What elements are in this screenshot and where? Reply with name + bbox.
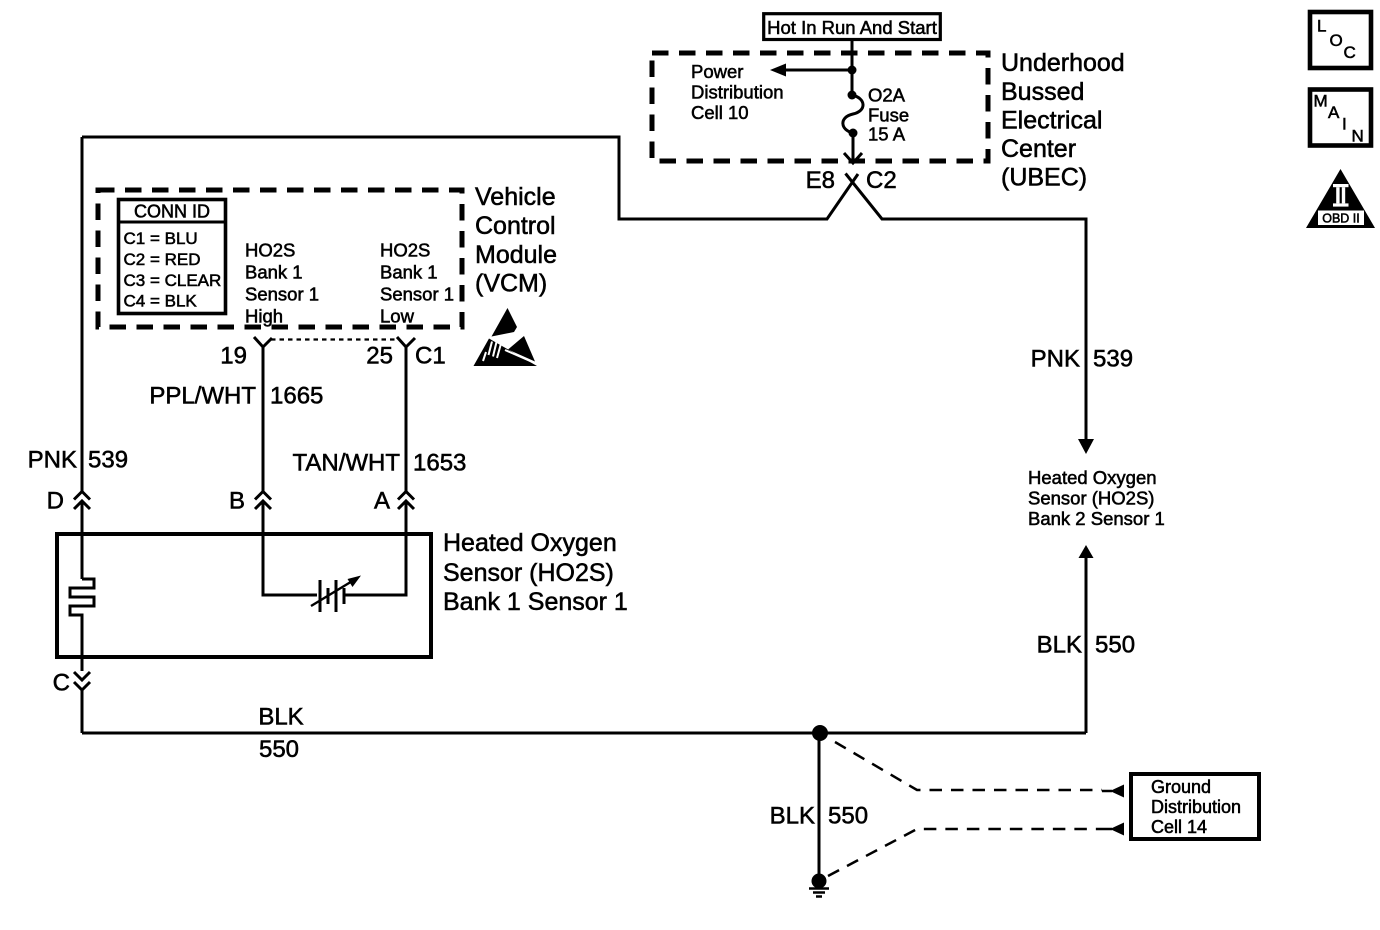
arrowhead down to HO2S bank2 [1078,439,1094,454]
svg-text:PNK: PNK [28,447,77,474]
svg-text:C4 = BLK: C4 = BLK [124,292,198,311]
svg-text:539: 539 [1093,346,1133,373]
wire fuse output with open arrowhead [852,133,855,162]
svg-text:Control: Control [475,212,556,240]
wire B PPL/WHT 1665 [262,347,265,491]
svg-text:550: 550 [259,736,299,763]
connector pin 19 V symbol [254,337,272,347]
svg-text:Sensor (HO2S): Sensor (HO2S) [1028,488,1154,509]
svg-text:High: High [245,306,283,327]
label BLK 550 right [1037,632,1135,659]
svg-text:D: D [47,488,64,515]
svg-text:550: 550 [1095,632,1135,659]
node junction at power distribution tap [848,66,857,75]
svg-text:Bank 1 Sensor 1: Bank 1 Sensor 1 [443,588,628,616]
svg-text:Heated Oxygen: Heated Oxygen [1028,467,1157,488]
svg-text:M: M [1314,92,1328,111]
svg-text:19: 19 [220,343,247,370]
svg-text:HO2S: HO2S [380,240,430,261]
svg-text:(VCM): (VCM) [475,270,547,298]
label TAN/WHT 1653 [292,450,466,477]
svg-text:Fuse: Fuse [868,105,909,126]
svg-text:C2 = RED: C2 = RED [124,250,201,269]
svg-text:PNK: PNK [1031,346,1080,373]
svg-text:O2A: O2A [868,85,906,106]
svg-text:Electrical: Electrical [1001,107,1102,135]
wire junction to ground [818,733,821,874]
svg-text:Low: Low [380,306,415,327]
wire right vertical BLK 550 [1085,558,1088,733]
wire bottom BLK 550 bus [82,732,1086,735]
connector pin 25 V symbol [397,337,415,347]
label CONN ID table [124,202,222,311]
svg-text:Distribution: Distribution [1151,797,1241,817]
svg-text:C1: C1 [415,343,446,370]
svg-text:C2: C2 [866,167,897,194]
ground symbol [809,889,829,897]
svg-text:OBD II: OBD II [1322,211,1360,225]
connector chevron C pointing down [74,672,90,690]
box CONN ID [119,200,226,314]
box VCM dashed outline [98,190,462,327]
wire left leg from connector to VCM loop [82,137,858,219]
svg-text:N: N [1352,127,1364,146]
svg-text:Power: Power [691,61,743,82]
svg-text:BLK: BLK [258,704,303,731]
label PNK 539 right [1031,346,1133,373]
dashed wire fork lower to Ground Distribution [828,829,1102,876]
svg-text:Vehicle: Vehicle [475,183,556,211]
label PNK 539 left [28,447,128,474]
node junction ground bus [812,725,828,741]
box MAIN icon [1310,90,1371,146]
svg-text:C: C [1344,43,1356,62]
label O2A Fuse 15 A [868,85,909,145]
svg-text:1665: 1665 [270,383,323,410]
svg-text:550: 550 [828,803,868,830]
arrowhead upper Ground Distribution [1110,785,1124,798]
svg-text:Sensor 1: Sensor 1 [380,284,454,305]
box Heated Oxygen Sensor [57,534,431,657]
wire power distribution arrow line [784,69,852,72]
sensor cell variable battery symbol [320,580,336,612]
svg-text:O: O [1330,31,1343,50]
svg-text:PPL/WHT: PPL/WHT [149,383,256,410]
label Ground Distribution Cell 14 [1151,777,1241,837]
label PPL/WHT 1665 [149,383,323,410]
label Vehicle Control Module (VCM) [475,183,557,298]
svg-text:I: I [1342,115,1347,134]
svg-text:TAN/WHT: TAN/WHT [292,450,400,477]
heater element symbol [70,579,94,657]
svg-text:C1 = BLU: C1 = BLU [124,229,198,248]
wire A TAN/WHT 1653 [405,347,408,491]
svg-text:25: 25 [366,343,393,370]
svg-text:Module: Module [475,241,557,269]
svg-text:CONN ID: CONN ID [134,202,210,222]
svg-text:Center: Center [1001,135,1076,163]
svg-text:Bank 1: Bank 1 [245,262,303,283]
svg-text:A: A [374,488,390,515]
svg-text:Distribution: Distribution [691,82,784,103]
label HO2S Bank 1 Sensor 1 High [245,240,319,327]
wire from Hot box to fuse node [851,41,854,95]
arrowhead to Power Distribution Cell 10 [770,64,786,77]
dashed wire fork upper to Ground Distribution [835,742,1102,790]
wire A into sensor box [345,501,406,595]
svg-text:Bank 2 Sensor 1: Bank 2 Sensor 1 [1028,508,1165,529]
svg-text:C: C [53,670,70,697]
ground node dot [812,874,827,889]
box LOC icon [1310,12,1371,68]
box Hot In Run And Start [764,14,941,40]
fuse O2A 15A [848,91,857,100]
svg-text:Sensor 1: Sensor 1 [245,284,319,305]
connector chevron D [74,492,90,510]
arrowhead lower Ground Distribution [1110,823,1124,836]
arrow across sensor cell [311,580,354,606]
connector chevron A [398,492,414,510]
svg-text:HO2S: HO2S [245,240,295,261]
label Power Distribution Cell 10 [691,61,784,123]
svg-text:A: A [1328,103,1340,122]
svg-text:Sensor (HO2S): Sensor (HO2S) [443,559,614,587]
OBD II triangle icon [1306,169,1375,228]
svg-text:B: B [229,488,245,515]
wire D into sensor box [81,501,84,579]
svg-text:Hot In Run And Start: Hot In Run And Start [767,17,937,38]
svg-text:539: 539 [88,447,128,474]
svg-text:E8: E8 [806,167,835,194]
svg-text:15 A: 15 A [868,124,906,145]
wire C to ground bus [81,689,84,733]
svg-text:BLK: BLK [770,803,815,830]
label Heated Oxygen Sensor (HO2S) Bank 2 Sensor 1 [1028,467,1165,529]
label Underhood Bussed Electrical Center (UBEC) [1001,49,1125,192]
wire C below sensor box [81,657,84,671]
ESD sensitivity symbol [474,308,538,366]
dashed connector link line C1 [271,338,398,340]
svg-text:1653: 1653 [413,450,466,477]
svg-text:Cell 14: Cell 14 [1151,817,1207,837]
svg-text:Underhood: Underhood [1001,49,1125,77]
svg-text:Ground: Ground [1151,777,1211,797]
wire right leg from connector to HO2S bank2 [846,174,1087,441]
svg-text:Bussed: Bussed [1001,78,1084,106]
box UBEC dashed outline [652,53,988,161]
arrowhead up from HO2S bank2 [1079,545,1094,558]
svg-text:BLK: BLK [1037,632,1082,659]
connector chevron B [255,492,271,510]
wire left vertical PNK 539 [81,137,84,491]
label HO2S Bank 1 Sensor 1 Low [380,240,454,327]
label BLK 550 bottom [770,803,868,830]
label BLK 550 left [258,704,303,764]
svg-text:L: L [1317,17,1326,36]
svg-text:Bank 1: Bank 1 [380,262,438,283]
svg-text:Heated Oxygen: Heated Oxygen [443,529,617,557]
wire B into sensor box [263,501,317,595]
svg-text:(UBEC): (UBEC) [1001,164,1087,192]
svg-text:C3 = CLEAR: C3 = CLEAR [124,271,222,290]
label Heated Oxygen Sensor (HO2S) Bank 1 Sensor 1 [443,529,628,616]
svg-text:Cell 10: Cell 10 [691,102,749,123]
box Ground Distribution Cell 14 [1131,774,1259,839]
